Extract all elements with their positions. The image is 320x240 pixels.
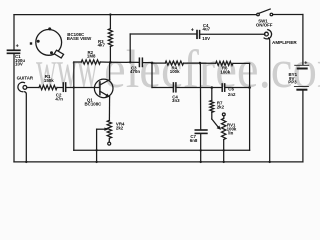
wire emitter down bbox=[108, 97, 110, 120]
svg-text:+: + bbox=[191, 27, 194, 33]
wire switch to right corner bbox=[273, 14, 303, 16]
wire collector to C3 bbox=[110, 61, 138, 63]
capacitor C6 bbox=[221, 84, 223, 91]
wire lower branch to C4 bbox=[152, 87, 173, 89]
wire bus-ground stub bbox=[96, 150, 98, 162]
wire node A down leg bbox=[151, 63, 153, 88]
wire C7 leg to ground bbox=[200, 150, 202, 162]
wire battery to ground bbox=[302, 91, 304, 162]
wire left vertical (V+ to C1) bbox=[13, 15, 15, 50]
wire C8 to amplifier jack bbox=[200, 33, 265, 35]
potentiometer RV1 bbox=[222, 118, 226, 139]
wire top rail V+ bbox=[14, 14, 257, 16]
capacitor C7 bbox=[195, 129, 207, 131]
node A bbox=[151, 62, 154, 65]
node stub/ground bbox=[95, 161, 97, 163]
node R3 top bbox=[109, 13, 111, 15]
resistor R6 bbox=[216, 61, 233, 65]
svg-text:47n: 47n bbox=[55, 96, 63, 101]
svg-text:3n3: 3n3 bbox=[172, 98, 180, 103]
wire RV1 top stub bbox=[223, 116, 225, 119]
wire C2 to Q1 base bbox=[66, 87, 99, 89]
svg-text:1M8: 1M8 bbox=[87, 54, 96, 59]
svg-text:10V: 10V bbox=[202, 36, 210, 41]
ground rail (bottom wire) bbox=[14, 161, 303, 163]
capacitor C2 bbox=[62, 83, 64, 91]
wire R7 bottom lead bbox=[211, 112, 213, 119]
wire guitar sleeve bbox=[25, 92, 27, 162]
wire amplifier sleeve bbox=[269, 38, 270, 162]
switch SW1 bbox=[257, 13, 260, 16]
svg-text:lin: lin bbox=[228, 130, 233, 135]
svg-text:150k: 150k bbox=[44, 78, 54, 83]
wire R3 bottom lead bbox=[109, 47, 111, 63]
jack J1 GUITAR bbox=[23, 86, 27, 90]
node collector bbox=[109, 61, 112, 64]
svg-text:6n8: 6n8 bbox=[190, 138, 198, 143]
node R7 top bbox=[211, 86, 214, 89]
node C7 leg/ground bbox=[200, 161, 202, 163]
wire R7 top lead bbox=[211, 88, 213, 101]
svg-text:GUITAR: GUITAR bbox=[17, 76, 34, 81]
node feedback/collector wire bbox=[129, 61, 131, 63]
wire bus rail bbox=[74, 149, 250, 151]
wire C1 to ground bbox=[13, 54, 15, 162]
svg-text:PP3: PP3 bbox=[288, 80, 297, 85]
resistor R2 bbox=[81, 60, 100, 64]
svg-text:2k2: 2k2 bbox=[116, 125, 124, 130]
wire guitar tip to R1 bbox=[27, 87, 39, 89]
wire R1 to C2 bbox=[57, 87, 62, 89]
svg-text:AMPLIFIER: AMPLIFIER bbox=[272, 40, 297, 45]
svg-text:+: + bbox=[16, 43, 19, 49]
trimmer VR4 bbox=[107, 120, 111, 138]
svg-text:BC108C: BC108C bbox=[85, 101, 103, 106]
wire C3 to node A bbox=[143, 62, 152, 64]
svg-text:4k7: 4k7 bbox=[98, 43, 106, 48]
capacitor C4 bbox=[172, 83, 174, 92]
wire RV1 leg to ground bbox=[223, 150, 225, 162]
node amp sleeve/ground bbox=[269, 161, 271, 163]
wire node B down through branch bbox=[199, 63, 201, 129]
wire filter right vertical bbox=[249, 63, 251, 150]
svg-text:2k2: 2k2 bbox=[217, 105, 225, 110]
wire wiper to bus bbox=[96, 129, 98, 150]
node C6/right vertical bbox=[248, 86, 251, 89]
wire VR4 wiper bbox=[97, 128, 106, 130]
resistor R4 bbox=[165, 61, 183, 65]
capacitor C1 bbox=[8, 49, 20, 51]
svg-text:4u7: 4u7 bbox=[203, 26, 211, 31]
wire feedback vertical bbox=[129, 34, 131, 62]
transistor base view inset bbox=[36, 30, 62, 56]
wire RV1 bottom to bus bbox=[223, 140, 225, 151]
node C7/bus bbox=[200, 149, 202, 151]
capacitor C3 bbox=[138, 58, 140, 66]
wire feedback horizontal to C8 bbox=[130, 33, 196, 35]
wire right vertical to battery bbox=[302, 15, 304, 65]
svg-text:+: + bbox=[304, 61, 307, 67]
wire R6 to right corner bbox=[233, 62, 250, 64]
wire R3 top lead bbox=[109, 15, 111, 29]
wire R2 lead bbox=[74, 61, 82, 63]
wire node A to R4 bbox=[152, 62, 165, 64]
svg-text:100k: 100k bbox=[220, 70, 230, 75]
svg-text:100k: 100k bbox=[170, 69, 180, 74]
wire R2 to collector node bbox=[100, 61, 110, 63]
node: guitar sleeve to ground bbox=[25, 161, 27, 163]
wire C7 to bus bbox=[200, 134, 202, 150]
node bus/wiper bbox=[95, 149, 97, 151]
terminal circle VR4 bottom bbox=[108, 142, 111, 145]
resistor R1 bbox=[39, 85, 57, 89]
wire R4 to node B bbox=[184, 62, 200, 64]
capacitor C4 output 4u7 bbox=[196, 31, 198, 39]
terminal circle RV1 top bbox=[222, 113, 225, 116]
wire R7 wiper diagonal to RV1 bbox=[212, 119, 219, 127]
node R2/base bbox=[73, 86, 75, 88]
resistor R3 bbox=[108, 29, 112, 47]
wire C6 to right vertical bbox=[225, 87, 249, 89]
wire VR4 bottom stub bbox=[108, 138, 110, 142]
transistor Q1 bbox=[94, 79, 113, 98]
svg-text:BASE VIEW: BASE VIEW bbox=[67, 36, 92, 41]
svg-text:470n: 470n bbox=[130, 69, 140, 74]
resistor R7 bbox=[210, 100, 214, 112]
watermark bbox=[36, 38, 103, 100]
svg-text:ON/OFF: ON/OFF bbox=[256, 22, 273, 27]
node B bbox=[199, 62, 202, 65]
wire R2 left leg vertical bbox=[73, 62, 75, 150]
svg-text:2n2: 2n2 bbox=[228, 92, 236, 97]
wire C4 to C6 bbox=[177, 87, 222, 89]
jack J2 AMPLIFIER bbox=[265, 32, 269, 36]
svg-text:10V: 10V bbox=[15, 62, 23, 67]
battery BY1 bbox=[295, 64, 309, 66]
node RV1/bus bbox=[223, 149, 225, 151]
wire node B to R6 bbox=[200, 62, 216, 64]
node RV1 leg/ground bbox=[223, 161, 225, 163]
